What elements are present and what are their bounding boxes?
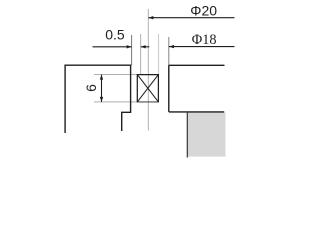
extension line 0.5 left (gland right face) bbox=[131, 35, 133, 65]
svg-text:Φ18: Φ18 bbox=[192, 32, 217, 48]
felt seal ring (box with X) bbox=[137, 75, 158, 102]
dim line 6 bbox=[101, 75, 103, 102]
gland (left block) outline bbox=[65, 65, 131, 133]
svg-text:6: 6 bbox=[83, 84, 99, 92]
arrow 6 bottom (pointing down) bbox=[100, 97, 103, 102]
dim ext line 6 top bbox=[94, 74, 138, 76]
svg-text:Φ20: Φ20 bbox=[190, 3, 217, 19]
arrow 6 top (pointing up) bbox=[100, 75, 103, 80]
arrow phi20 bbox=[148, 16, 153, 19]
seal diagonal 1 bbox=[137, 75, 158, 102]
housing (right block) outline bbox=[169, 65, 225, 112]
dim line phi20 bbox=[148, 17, 234, 19]
shaft section gray fill bbox=[188, 112, 226, 156]
arrow phi18 bbox=[169, 45, 174, 48]
extension line phi18 (shaft face up) bbox=[168, 37, 170, 65]
dim line phi18 bbox=[169, 46, 235, 48]
dim line 0.5 right tail bbox=[141, 46, 150, 48]
extension line phi20 bbox=[147, 9, 149, 131]
arrow 0.5 right (pointing left) bbox=[141, 45, 146, 48]
arrow 0.5 left (pointing right) bbox=[127, 45, 132, 48]
extension line mid groove bbox=[158, 34, 160, 75]
shaft left edge bbox=[186, 112, 188, 158]
svg-text:0.5: 0.5 bbox=[105, 27, 125, 43]
dim ext line 6 bottom bbox=[94, 101, 138, 103]
seal diagonal 2 bbox=[137, 75, 158, 102]
dim line 0.5 left tail bbox=[93, 46, 132, 48]
extension line 0.5 right bbox=[140, 34, 142, 75]
seal box bottom edge bbox=[137, 101, 159, 103]
